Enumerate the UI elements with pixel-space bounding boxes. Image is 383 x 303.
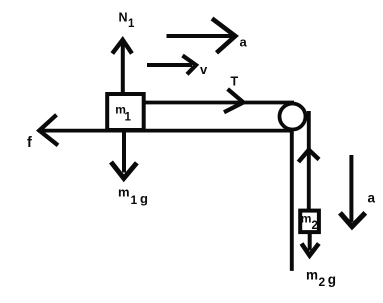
svg-text:a: a xyxy=(240,35,248,50)
label m2g xyxy=(306,268,336,290)
svg-text:g: g xyxy=(140,191,148,206)
svg-text:1: 1 xyxy=(125,112,132,124)
svg-text:m: m xyxy=(301,212,312,226)
tension arrowhead on vertical rope xyxy=(298,150,319,162)
label m1g xyxy=(118,185,148,208)
svg-text:1: 1 xyxy=(131,193,138,207)
svg-text:2: 2 xyxy=(312,220,318,232)
acceleration arrow a (top) xyxy=(167,19,236,53)
svg-text:m: m xyxy=(306,268,318,283)
acceleration arrow a (right, downward) xyxy=(340,155,365,227)
block m1 xyxy=(107,94,144,130)
rope (vertical segment) xyxy=(307,111,311,210)
svg-text:1: 1 xyxy=(128,18,135,30)
velocity arrow v xyxy=(147,56,196,75)
rope (horizontal segment) xyxy=(144,101,294,105)
friction force arrowhead f xyxy=(39,115,58,146)
svg-text:f: f xyxy=(27,135,32,151)
normal force arrow N1 xyxy=(112,40,132,94)
pulley xyxy=(280,104,306,130)
label N1 xyxy=(119,11,136,31)
table edge (vertical line) xyxy=(290,131,294,271)
svg-text:N: N xyxy=(119,11,128,25)
svg-text:2: 2 xyxy=(319,275,326,289)
svg-text:T: T xyxy=(231,75,239,89)
svg-text:g: g xyxy=(328,272,336,287)
weight arrow m1g xyxy=(111,132,137,178)
table surface line xyxy=(40,129,294,133)
block m2 xyxy=(300,211,319,233)
tension arrowhead on rope xyxy=(224,89,243,112)
weight arrow m2g xyxy=(302,234,319,256)
svg-text:v: v xyxy=(200,62,208,77)
svg-text:m: m xyxy=(118,185,130,200)
svg-text:a: a xyxy=(368,191,376,206)
